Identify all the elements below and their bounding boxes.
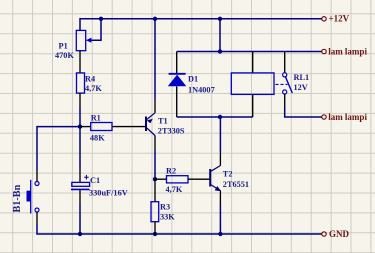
- node P1 wiper junction: [99, 17, 103, 21]
- resistor R1: [91, 123, 112, 131]
- wire P1 top feed: [79, 18, 81, 31]
- svg-text:T1: T1: [158, 117, 168, 126]
- wire R2 to T2 base: [188, 178, 210, 180]
- transistor T2: [210, 165, 221, 191]
- capacitor C1: [71, 175, 90, 190]
- svg-text:4,7K: 4,7K: [166, 185, 183, 194]
- svg-text:T2: T2: [223, 170, 233, 179]
- node T2 emitter junction: [218, 232, 222, 236]
- resistor R2: [167, 176, 189, 183]
- wire D1 branch bottom: [176, 86, 178, 117]
- wire relay top rail: [177, 51, 322, 53]
- relay contact switch: [276, 73, 293, 94]
- resistor R3: [151, 202, 159, 222]
- wire node to R2: [155, 178, 167, 180]
- terminal +12V: [322, 17, 326, 21]
- wire T1 collector down: [154, 136, 156, 151]
- svg-text:470K: 470K: [55, 51, 74, 60]
- node C1 bottom junction: [78, 232, 82, 236]
- svg-text:P1: P1: [59, 42, 68, 51]
- svg-text:R4: R4: [85, 75, 95, 84]
- wire R1 to T1 base: [112, 126, 146, 128]
- wire P1 to R4: [79, 51, 81, 73]
- svg-text:1N4007: 1N4007: [188, 86, 215, 95]
- svg-text:2T330S: 2T330S: [158, 127, 185, 136]
- svg-text:lam lampi: lam lampi: [328, 112, 367, 122]
- svg-text:R3: R3: [160, 203, 170, 212]
- wire node to button branch: [37, 127, 80, 170]
- wire node to R1: [80, 126, 91, 128]
- wire R4 to node: [79, 93, 81, 107]
- transistor T1: [146, 113, 155, 136]
- wire relay coil top pin: [252, 52, 254, 73]
- svg-text:330uF/16V: 330uF/16V: [89, 189, 128, 198]
- wire R3 to bottom rail: [154, 222, 156, 234]
- wire T2 collector up: [219, 152, 221, 165]
- svg-text:D1: D1: [188, 75, 198, 84]
- wire C1 to bottom rail: [79, 189, 81, 205]
- wire relay bottom rail: [177, 116, 253, 118]
- svg-text:4,7K: 4,7K: [85, 84, 102, 93]
- wire button to bottom rail: [36, 212, 38, 224]
- wire node to R3: [154, 179, 156, 202]
- svg-text:2T6551: 2T6551: [223, 180, 249, 189]
- pushbutton B1-Bn: [27, 180, 40, 214]
- wire T2 emitter down: [219, 191, 221, 205]
- wire switch bottom to lamp: [284, 94, 286, 107]
- svg-text:48K: 48K: [90, 134, 105, 143]
- svg-text:C1: C1: [90, 176, 100, 185]
- terminal lam lampi upper: [322, 49, 326, 53]
- relay coil RL1: [231, 73, 274, 95]
- wire +12V feed to relay: [219, 19, 221, 52]
- svg-text:12V: 12V: [294, 83, 308, 92]
- svg-text:R1: R1: [91, 114, 101, 123]
- node relay bottom rail: [218, 115, 222, 119]
- svg-text:+12V: +12V: [329, 14, 350, 24]
- node R2 R3 junction: [153, 177, 157, 181]
- node relay top rail: [218, 49, 222, 53]
- resistor R4: [77, 73, 85, 93]
- svg-text:33K: 33K: [160, 213, 175, 222]
- node R1 junction: [78, 124, 82, 128]
- wire P1 wiper to rail: [89, 19, 101, 40]
- wire D1 branch top: [176, 52, 178, 74]
- svg-text:GND: GND: [329, 229, 350, 239]
- node T1 emitter rail junction: [153, 17, 157, 21]
- svg-text:B1-Bn: B1-Bn: [12, 184, 23, 212]
- terminal lam lampi lower: [322, 115, 326, 119]
- svg-text:RL1: RL1: [294, 73, 310, 82]
- svg-text:lam lampi: lam lampi: [328, 47, 367, 57]
- wire switch top to rail: [284, 52, 286, 73]
- wire T1 emitter to top rail: [154, 99, 156, 113]
- node R3 bottom junction: [153, 232, 157, 236]
- wire node to C1: [79, 127, 81, 169]
- wire relay coil bottom pin: [252, 94, 254, 117]
- potentiometer P1: [76, 30, 91, 50]
- terminal GND: [322, 232, 326, 236]
- wire top +12V rail: [80, 18, 322, 20]
- diode D1: [168, 74, 187, 86]
- node top rail feed: [218, 17, 222, 21]
- svg-text:R2: R2: [166, 167, 176, 176]
